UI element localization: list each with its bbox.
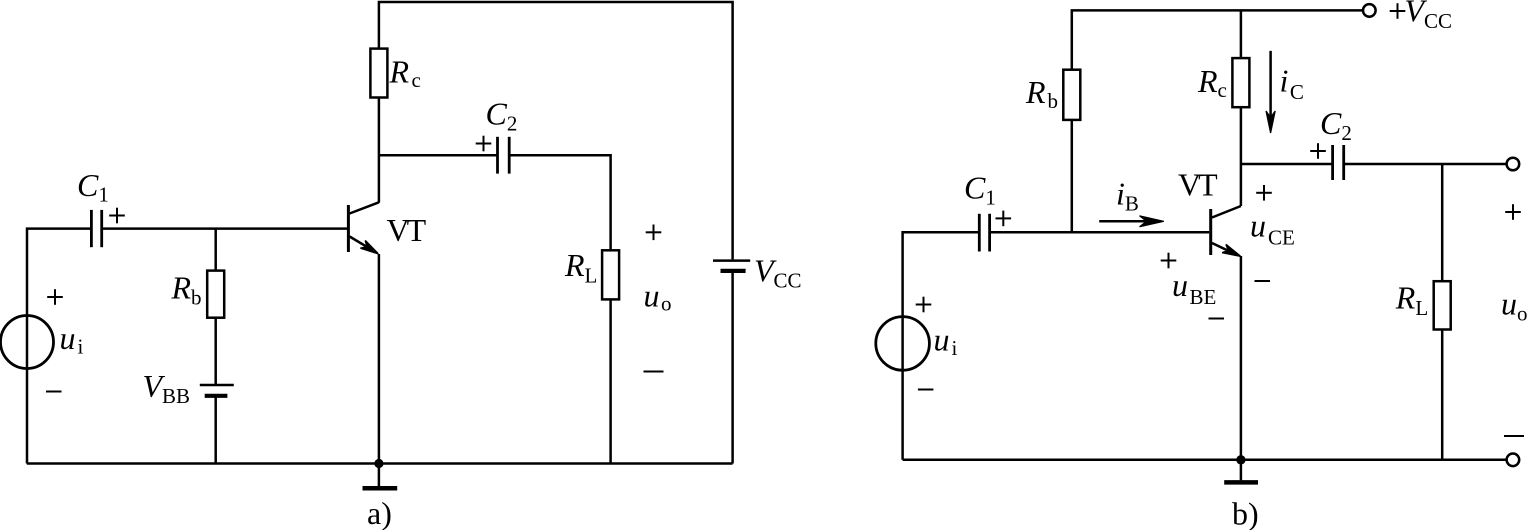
node junction dot a: [374, 459, 383, 468]
svg-text:Rc: Rc: [1197, 63, 1227, 102]
wire input left loop b: [903, 232, 980, 459]
battery VBB: [200, 385, 234, 396]
svg-text:VBB: VBB: [143, 368, 191, 408]
transistor VT b: [1211, 206, 1241, 256]
plus sign uBE: [1161, 253, 1177, 269]
wire bottom rail circuit a: [27, 462, 733, 465]
wire Rb to VBB: [214, 318, 217, 384]
wire top and right side of circuit a: [379, 2, 733, 259]
plus sign VCC terminal b: [1390, 3, 1406, 19]
wire VBB to bottom: [214, 397, 217, 464]
svg-text:VCC: VCC: [1405, 0, 1453, 33]
wire C2 branch left a: [379, 154, 498, 157]
svg-text:iC: iC: [1280, 63, 1304, 105]
wire right side below VCC battery: [731, 272, 734, 464]
resistor Rc b: [1232, 58, 1249, 107]
capacitor C2 a: [498, 137, 510, 174]
svg-text:VT: VT: [387, 212, 427, 248]
current arrow iC: [1266, 51, 1275, 133]
plus sign uCE: [1256, 185, 1272, 201]
terminal output top b: [1507, 158, 1520, 171]
wire emitter vertical a: [378, 254, 381, 464]
resistor Rc a: [370, 49, 387, 98]
source ui circle a: [1, 316, 54, 369]
wire RL bottom a: [609, 299, 612, 463]
svg-text:VT: VT: [1178, 167, 1218, 203]
svg-text:uo: uo: [1501, 286, 1527, 326]
svg-text:RL: RL: [564, 247, 597, 288]
svg-text:Rb: Rb: [1025, 74, 1058, 113]
minus sign uo b: [1504, 435, 1524, 437]
plus sign C1 b: [996, 211, 1012, 227]
svg-text:iB: iB: [1116, 176, 1139, 216]
svg-text:RL: RL: [1395, 279, 1428, 320]
wire top rail circuit b: [1072, 10, 1363, 69]
wire RL upper b: [1441, 164, 1444, 281]
svg-text:C2: C2: [1320, 105, 1352, 145]
plus sign C2 a: [476, 136, 492, 152]
wire Rb upper: [214, 229, 217, 271]
resistor RL a: [602, 250, 619, 299]
terminal output bottom b: [1507, 454, 1520, 467]
battery VCC: [713, 261, 750, 271]
wire Rb lower b: [1071, 120, 1074, 232]
capacitor C1 b: [979, 214, 989, 252]
resistor Rb: [207, 271, 224, 318]
wire collector vertical b: [1240, 107, 1243, 206]
capacitor C2 b: [1333, 145, 1344, 180]
wire C2 to output terminal b: [1344, 163, 1507, 166]
svg-text:Rb: Rb: [171, 270, 202, 310]
plus sign C2 b: [1310, 143, 1326, 159]
svg-text:b): b): [1232, 496, 1259, 530]
svg-text:uBE: uBE: [1172, 267, 1216, 309]
wire collector vertical a: [378, 98, 381, 203]
source ui circle b: [876, 317, 930, 371]
plus sign ui a: [47, 289, 63, 305]
svg-text:Rc: Rc: [389, 54, 421, 93]
ground b: [1224, 460, 1258, 483]
ground a: [363, 464, 398, 489]
wire input left loop circuit a: [27, 229, 91, 464]
svg-text:uCE: uCE: [1250, 208, 1295, 250]
transistor VT a: [348, 202, 379, 254]
svg-text:a): a): [367, 495, 392, 530]
wire C1 to base: [102, 227, 348, 230]
svg-text:C1: C1: [964, 169, 996, 209]
wire C2 branch left b: [1241, 163, 1333, 166]
wire RL lower b: [1441, 330, 1444, 460]
resistor Rb b: [1063, 70, 1080, 120]
plus sign C1: [109, 208, 125, 224]
plus sign uo a: [646, 225, 662, 241]
wire C2 to RL a: [509, 155, 610, 250]
minus sign uo a: [644, 371, 664, 373]
wire Rc top branch b: [1240, 10, 1243, 58]
svg-text:ui: ui: [934, 322, 958, 361]
wire emitter vertical b: [1240, 256, 1243, 460]
wire bottom rail b: [903, 459, 1507, 462]
resistor RL b: [1434, 281, 1451, 329]
capacitor C1: [91, 210, 101, 247]
svg-text:C2: C2: [486, 96, 518, 136]
plus sign uo b: [1505, 204, 1521, 220]
minus sign ui a: [46, 391, 62, 393]
minus sign ui b: [918, 389, 934, 391]
node junction dot b: [1236, 455, 1245, 464]
plus sign ui b: [916, 297, 932, 313]
current arrow iB: [1099, 216, 1164, 227]
svg-text:C1: C1: [77, 167, 109, 207]
terminal +VCC: [1363, 4, 1376, 17]
svg-text:VCC: VCC: [754, 253, 802, 293]
svg-text:uo: uo: [644, 278, 672, 316]
minus sign uCE: [1255, 280, 1271, 282]
wire base b: [990, 231, 1209, 234]
svg-text:ui: ui: [60, 320, 84, 359]
minus sign uBE: [1209, 318, 1225, 320]
